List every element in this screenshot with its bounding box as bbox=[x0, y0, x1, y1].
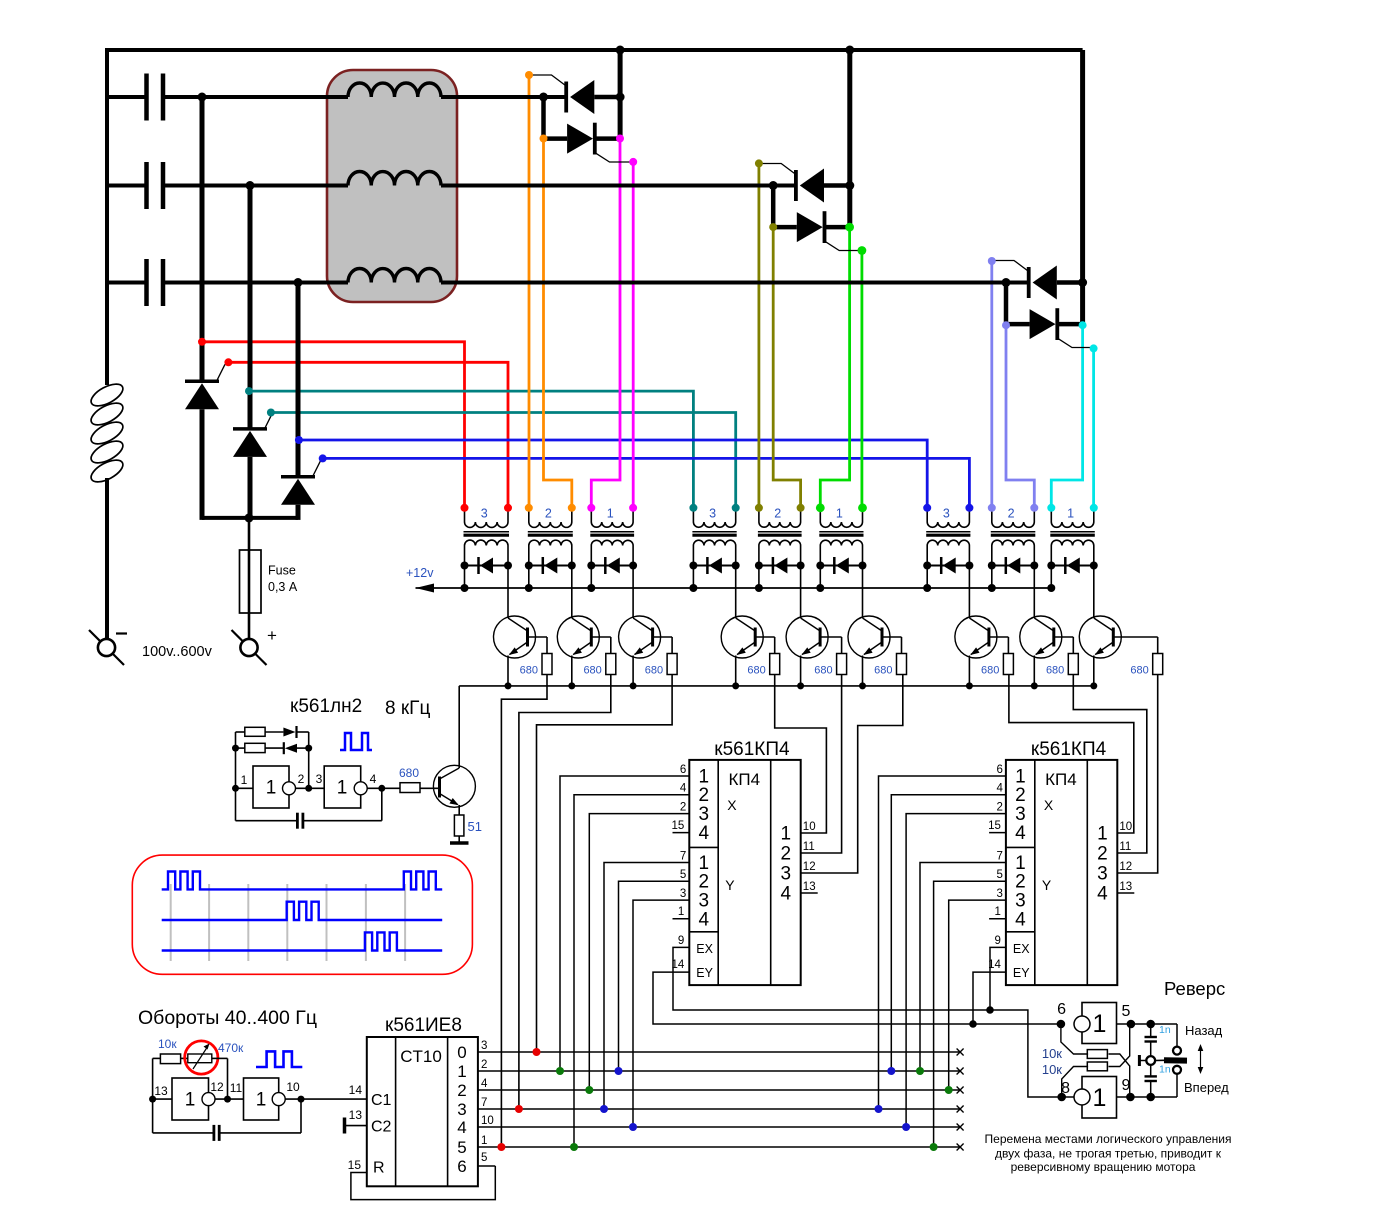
node magenta gate dots bbox=[616, 135, 624, 143]
terminator X out2 bbox=[957, 1087, 964, 1094]
wire red gate 2 from thyristor VS1 to T1 bbox=[228, 362, 508, 508]
svg-text:2: 2 bbox=[699, 785, 710, 806]
svg-text:двух фаза, не трогая третью, п: двух фаза, не трогая третью, приводит к bbox=[995, 1147, 1222, 1161]
svg-text:1: 1 bbox=[241, 773, 248, 787]
svg-text:3: 3 bbox=[1015, 804, 1026, 825]
node DD1.5 input bbox=[1057, 1020, 1066, 1029]
wire DD2 pin 5 input from counter bbox=[619, 881, 690, 1071]
wire DD1.1 to DD1.2 bbox=[296, 787, 325, 789]
transistor Q9 bbox=[1093, 566, 1095, 619]
phase line C bbox=[298, 281, 348, 285]
DD2 pin 15 stub bbox=[673, 832, 690, 834]
node DD1 junction bbox=[305, 785, 312, 792]
wire T4 secondary to +12v rail bbox=[692, 566, 694, 589]
wire DD2 pin 2 input from counter bbox=[589, 814, 689, 1090]
wire DD3 pin 2 input from counter bbox=[906, 814, 1006, 1127]
pulse transformer T7 bbox=[926, 508, 928, 522]
svg-text:3: 3 bbox=[316, 772, 323, 786]
wire Q7 base to DD3 pin10 bbox=[1009, 675, 1134, 834]
svg-text:1: 1 bbox=[781, 824, 792, 845]
resistor R1 680 base bbox=[528, 636, 548, 638]
motor winding phase B bbox=[348, 172, 441, 186]
svg-text:7: 7 bbox=[680, 851, 686, 863]
node counter tap at 618.5 bbox=[615, 1067, 623, 1075]
svg-text:11: 11 bbox=[230, 1081, 243, 1095]
svg-text:13: 13 bbox=[154, 1084, 168, 1098]
svg-text:2: 2 bbox=[298, 772, 305, 786]
wire blue gate 2 from thyristor VS3 to T7 bbox=[323, 458, 970, 507]
wire counter out3 row pin 7 bbox=[478, 1108, 960, 1110]
transistor Q2 bbox=[571, 566, 573, 619]
node counter tap at 933.6 bbox=[930, 1143, 938, 1151]
DD2 pin 13 stub bbox=[801, 892, 818, 894]
wire green gate from VS7 to T6 bbox=[861, 251, 864, 508]
node counter tap at 920 bbox=[916, 1067, 924, 1075]
svg-text:12: 12 bbox=[803, 861, 816, 873]
svg-text:EX: EX bbox=[1013, 942, 1030, 956]
svg-text:+12v: +12v bbox=[406, 566, 434, 580]
svg-text:1: 1 bbox=[836, 507, 843, 521]
transistor Q5 bbox=[800, 566, 802, 619]
wire T2 secondary to +12v rail bbox=[528, 566, 530, 589]
wire DD3 pin 6 input from counter bbox=[879, 776, 1006, 1109]
thyristor VS1 rectifier phase A bbox=[200, 97, 205, 354]
node Q4 emitter bbox=[732, 682, 739, 689]
svg-text:6: 6 bbox=[996, 764, 1002, 776]
multiplexer DD2 body bbox=[689, 760, 800, 985]
icon square wave 8kHz bbox=[340, 733, 372, 750]
wire violet cathode from VS8 to T8 bbox=[1006, 325, 1034, 508]
node Q2 emitter bbox=[568, 682, 575, 689]
svg-text:15: 15 bbox=[348, 1158, 362, 1172]
wire DD1.3 input bbox=[153, 1098, 172, 1100]
wire DD1.5 input to R16 bbox=[1061, 1024, 1088, 1054]
diode VD7 across T7 secondary bbox=[927, 565, 969, 567]
svg-text:51: 51 bbox=[468, 819, 482, 834]
wire olive cathode from VS6 to T5 bbox=[773, 227, 800, 508]
wire Q10 collector to emitter bus bbox=[458, 686, 460, 768]
node Q1 emitter bbox=[505, 682, 512, 689]
waveform diagram box bbox=[132, 855, 472, 974]
node counter tap at 589.3 bbox=[585, 1086, 593, 1094]
svg-text:2: 2 bbox=[1097, 844, 1108, 865]
svg-text:100v..600v: 100v..600v bbox=[142, 644, 213, 660]
svg-text:4: 4 bbox=[370, 772, 377, 786]
node Q3 emitter bbox=[630, 682, 637, 689]
svg-text:C2: C2 bbox=[371, 1119, 392, 1136]
pulse transformer T4 bbox=[692, 508, 694, 522]
node violet gate dots bbox=[988, 257, 996, 265]
svg-text:3: 3 bbox=[481, 507, 488, 521]
svg-text:Y: Y bbox=[725, 877, 735, 893]
node Q6 emitter bbox=[859, 682, 866, 689]
resistor R13 51 bbox=[458, 805, 460, 815]
svg-text:3: 3 bbox=[457, 1100, 466, 1119]
svg-text:6: 6 bbox=[457, 1157, 466, 1176]
svg-text:Y: Y bbox=[1042, 877, 1052, 893]
motor winding phase A bbox=[348, 83, 441, 97]
resistor R8 680 base bbox=[1054, 636, 1074, 638]
svg-text:2: 2 bbox=[1015, 872, 1026, 893]
node olive gate dots bbox=[755, 159, 763, 167]
svg-text:2: 2 bbox=[1015, 785, 1026, 806]
svg-text:680: 680 bbox=[583, 665, 601, 677]
svg-text:Назад: Назад bbox=[1185, 1023, 1223, 1038]
svg-text:2: 2 bbox=[481, 1059, 487, 1071]
svg-text:3: 3 bbox=[680, 888, 686, 900]
wire orange gate from VS4 to T2 bbox=[528, 75, 531, 508]
thyristor VS9 lower bbox=[1004, 283, 1009, 325]
wire cyan cathode from VS9 to T9 bbox=[1051, 325, 1082, 508]
svg-text:470к: 470к bbox=[218, 1041, 244, 1055]
terminator X out1 bbox=[957, 1068, 964, 1075]
svg-text:5: 5 bbox=[1122, 1003, 1131, 1020]
motor winding phase C bbox=[348, 269, 441, 283]
transistor Q7 bbox=[968, 566, 970, 619]
svg-text:8 кГц: 8 кГц bbox=[385, 698, 430, 719]
motor M1 stator block bbox=[327, 70, 457, 302]
wire DD3 pin 5 input from counter bbox=[934, 881, 1006, 1147]
pulse transformer T9 bbox=[1050, 508, 1052, 522]
svg-text:1: 1 bbox=[994, 906, 1000, 918]
svg-text:1: 1 bbox=[457, 1062, 466, 1081]
multiplexer DD3 body bbox=[1006, 760, 1117, 985]
svg-text:10: 10 bbox=[803, 821, 816, 833]
pulse transformer T8 bbox=[991, 508, 993, 522]
node DD1.6 input bbox=[1057, 1093, 1066, 1102]
svg-text:4: 4 bbox=[481, 1078, 488, 1090]
svg-text:3: 3 bbox=[781, 864, 792, 885]
wire counter out4 row pin 10 bbox=[478, 1126, 960, 1128]
wire DD2 pin 6 input from counter bbox=[560, 776, 689, 1071]
svg-text:2: 2 bbox=[781, 844, 792, 865]
svg-text:CT10: CT10 bbox=[400, 1047, 442, 1066]
node VS6 anode bus bbox=[847, 50, 852, 227]
DD3 pin 1 stub bbox=[989, 918, 1006, 920]
svg-text:3: 3 bbox=[943, 507, 950, 521]
svg-text:10: 10 bbox=[286, 1080, 300, 1094]
capacitor C12 1n bbox=[1150, 1024, 1152, 1037]
resistor R6 680 base bbox=[882, 636, 902, 638]
terminator X out4 bbox=[957, 1124, 964, 1131]
wire magenta gate from VS5 to T3 bbox=[632, 162, 635, 508]
wire R17 to DD1.5 output cross bbox=[1109, 1024, 1130, 1067]
svg-text:680: 680 bbox=[981, 665, 999, 677]
node EY DD3 join bbox=[969, 1020, 977, 1028]
switch SA1 contact fwd bbox=[1173, 1066, 1181, 1074]
counter C2 stub bbox=[345, 1125, 367, 1127]
node Q7 emitter bbox=[966, 682, 973, 689]
resistor R9 680 base bbox=[1113, 636, 1157, 638]
svg-text:7: 7 bbox=[996, 851, 1002, 863]
capacitor C3 bbox=[107, 281, 147, 285]
node counter tap out5 red bbox=[497, 1143, 505, 1151]
terminator X out3 bbox=[957, 1106, 964, 1113]
inverter DD1.4 bbox=[244, 1078, 279, 1120]
node rectifier output bbox=[245, 513, 254, 522]
wire teal gate 1 from thyristor VS2 to T4 bbox=[249, 391, 693, 508]
svg-text:14: 14 bbox=[349, 1083, 363, 1097]
waveform trace phase A bbox=[162, 872, 443, 890]
svg-text:13: 13 bbox=[349, 1108, 363, 1122]
node VS4 anode bus bbox=[618, 50, 623, 139]
DD2 pin 1 stub bbox=[673, 918, 690, 920]
svg-text:4: 4 bbox=[1015, 909, 1026, 930]
node orange gate dots bbox=[525, 71, 533, 79]
icon square wave 40-400Hz bbox=[256, 1051, 302, 1067]
node blue gate dots bbox=[295, 436, 303, 444]
node EX DD3 join bbox=[986, 1006, 994, 1014]
left DC bus bbox=[105, 48, 109, 385]
wire blue gate 1 from thyristor VS3 to T7 bbox=[299, 440, 927, 508]
svg-text:1: 1 bbox=[185, 1090, 196, 1111]
node red gate dots bbox=[198, 338, 206, 346]
svg-text:680: 680 bbox=[814, 665, 832, 677]
node counter tap out3 red bbox=[515, 1105, 523, 1113]
diode VD9 across T9 secondary bbox=[1051, 565, 1094, 567]
svg-text:0,3 А: 0,3 А bbox=[268, 580, 298, 594]
svg-text:к561лн2: к561лн2 bbox=[290, 696, 362, 717]
transistor Q8 bbox=[1033, 566, 1035, 619]
svg-text:14: 14 bbox=[988, 959, 1001, 971]
switch SA1 lever bbox=[1155, 1059, 1164, 1061]
thyristor VS5 lower bbox=[541, 97, 546, 139]
wire T7 secondary to +12v rail bbox=[926, 566, 928, 589]
node cyan gate dots bbox=[1079, 321, 1087, 329]
node counter tap at 560 bbox=[556, 1067, 564, 1075]
svg-text:12: 12 bbox=[1119, 861, 1132, 873]
diode VD2 across T2 secondary bbox=[529, 565, 572, 567]
wire olive gate from VS6 to T5 bbox=[758, 163, 761, 507]
svg-text:к561ИЕ8: к561ИЕ8 bbox=[385, 1015, 462, 1036]
inverter DD1.1 bbox=[253, 766, 289, 808]
node counter tap at 633 bbox=[629, 1123, 637, 1131]
svg-text:10к: 10к bbox=[1042, 1046, 1062, 1061]
svg-text:680: 680 bbox=[1130, 665, 1148, 677]
wire T9 secondary to +12v rail bbox=[1050, 566, 1052, 589]
ground bbox=[458, 836, 460, 843]
svg-text:4: 4 bbox=[457, 1118, 466, 1137]
wire cyan gate from VS9 to T9 bbox=[1092, 348, 1095, 507]
pulse transformer T1 bbox=[464, 508, 466, 522]
svg-text:3: 3 bbox=[699, 804, 710, 825]
svg-text:11: 11 bbox=[803, 841, 815, 853]
waveform grid lines bbox=[170, 884, 172, 961]
feedback branch resistor R12 bbox=[236, 747, 245, 749]
pulse transformer T6 bbox=[819, 508, 821, 522]
wire T8 secondary to +12v rail bbox=[991, 566, 993, 589]
svg-text:X: X bbox=[1044, 797, 1054, 813]
svg-text:15: 15 bbox=[988, 820, 1001, 832]
svg-text:Fuse: Fuse bbox=[268, 564, 296, 578]
wire feedback left bbox=[235, 732, 237, 821]
node counter tap at 948.7 bbox=[945, 1086, 953, 1094]
wire DD1.5 output bbox=[1117, 1023, 1178, 1025]
wire DD2 pin 3 input from counter bbox=[633, 900, 689, 1127]
waveform trace phase C bbox=[162, 932, 443, 950]
terminal minus bbox=[89, 630, 124, 665]
wire DD2 pin 7 input from counter bbox=[604, 863, 689, 1110]
svg-text:5: 5 bbox=[680, 869, 686, 881]
svg-text:1: 1 bbox=[1097, 824, 1108, 845]
wire counter out5 row pin 1 bbox=[478, 1146, 960, 1148]
wire T3 secondary to +12v rail bbox=[590, 566, 592, 589]
svg-text:1: 1 bbox=[266, 778, 277, 799]
svg-text:3: 3 bbox=[481, 1040, 487, 1052]
rectifier cathode bus bbox=[202, 516, 298, 520]
svg-text:6: 6 bbox=[1057, 1001, 1066, 1018]
svg-text:4: 4 bbox=[781, 884, 792, 905]
diode VD1 across T1 secondary bbox=[465, 565, 509, 567]
svg-text:к561КП4: к561КП4 bbox=[714, 739, 790, 760]
terminator X out5 bbox=[957, 1144, 964, 1151]
transistor Q6 bbox=[862, 566, 864, 619]
wire red gate 1 from thyristor VS1 to T1 bbox=[202, 342, 465, 508]
svg-text:1n: 1n bbox=[1159, 1024, 1171, 1036]
terminator X out0 bbox=[957, 1049, 964, 1056]
wire Q8 base to DD3 pin11 bbox=[1073, 675, 1147, 854]
thyristor VS3 rectifier phase C bbox=[296, 283, 301, 477]
diode VD5 across T5 secondary bbox=[759, 565, 801, 567]
node phase A cap junction bbox=[198, 93, 207, 102]
node Q9 emitter bbox=[1090, 682, 1097, 689]
diode VD4 across T4 secondary bbox=[693, 565, 735, 567]
wire counter out2 row pin 4 bbox=[478, 1089, 960, 1091]
svg-text:2: 2 bbox=[545, 507, 552, 521]
svg-text:R: R bbox=[373, 1160, 385, 1177]
transistor Q4 bbox=[735, 566, 737, 619]
diode VD8 across T8 secondary bbox=[992, 565, 1035, 567]
wire Q6 base to DD2 pin12 bbox=[801, 675, 903, 874]
svg-text:X: X bbox=[727, 797, 737, 813]
wire DD1.4 output to counter C1 bbox=[285, 1098, 367, 1100]
resistor R5 680 base bbox=[820, 636, 842, 638]
svg-text:2: 2 bbox=[1008, 507, 1015, 521]
wire Q3 base to counter out0 bbox=[537, 675, 673, 1053]
node green gate dots bbox=[845, 223, 854, 232]
wire DD1.6 input to R17 bbox=[1062, 1067, 1088, 1098]
node VS8 anode bus bbox=[1080, 50, 1085, 324]
wire Q1 base to counter out5 bbox=[501, 675, 547, 1148]
DD3 pin 15 stub bbox=[989, 832, 1006, 834]
svg-text:7: 7 bbox=[481, 1097, 487, 1109]
resistor R2 680 base bbox=[591, 636, 611, 638]
node counter tap at 604 bbox=[600, 1105, 608, 1113]
transistor Q1 bbox=[507, 566, 509, 619]
pulse transformer T5 bbox=[758, 508, 760, 522]
svg-text:2: 2 bbox=[996, 802, 1002, 814]
svg-text:1: 1 bbox=[607, 507, 614, 521]
emitter common bus bbox=[459, 685, 1094, 687]
counter DD4 к561ИЕ8 body bbox=[367, 1037, 478, 1186]
svg-text:0: 0 bbox=[457, 1043, 466, 1062]
inverter DD1.5 bbox=[1082, 1003, 1117, 1044]
node phase C cap junction bbox=[294, 278, 303, 287]
svg-text:2: 2 bbox=[680, 802, 686, 814]
switch SA1 contact back bbox=[1173, 1047, 1181, 1055]
wire DD1.6 output bbox=[1117, 1096, 1178, 1098]
resistor R7 680 base bbox=[989, 636, 1009, 638]
wire Q5 base to DD2 pin11 bbox=[801, 675, 842, 854]
feedback branch resistor R11 bbox=[236, 731, 245, 733]
wire Q2 base to counter out3 bbox=[519, 675, 611, 1110]
svg-text:1n: 1n bbox=[1159, 1064, 1171, 1076]
thyristor VS2 rectifier phase B bbox=[248, 186, 253, 429]
transistor Q10 8kHz chopper bbox=[433, 765, 475, 807]
svg-text:10: 10 bbox=[1119, 821, 1132, 833]
svg-text:к561КП4: к561КП4 bbox=[1031, 739, 1107, 760]
wire DD1.3 to DD1.4 bbox=[215, 1098, 244, 1100]
svg-text:1: 1 bbox=[337, 778, 348, 799]
svg-text:10к: 10к bbox=[158, 1037, 177, 1051]
svg-text:10к: 10к bbox=[1042, 1062, 1062, 1077]
svg-text:Обороты 40..400 Гц: Обороты 40..400 Гц bbox=[138, 1007, 317, 1029]
svg-text:КП4: КП4 bbox=[729, 770, 761, 789]
svg-text:4: 4 bbox=[699, 823, 710, 844]
svg-text:4: 4 bbox=[1097, 884, 1108, 905]
diode VD3 across T3 secondary bbox=[591, 565, 633, 567]
svg-text:12: 12 bbox=[210, 1080, 224, 1094]
svg-text:13: 13 bbox=[1119, 881, 1132, 893]
thyristor VS6 upper bbox=[794, 170, 798, 201]
svg-text:4: 4 bbox=[699, 909, 710, 930]
svg-text:14: 14 bbox=[672, 959, 685, 971]
svg-text:4: 4 bbox=[1015, 823, 1026, 844]
svg-text:EX: EX bbox=[696, 942, 713, 956]
terminal plus bbox=[232, 630, 267, 665]
wire rheostat to junction bbox=[212, 1057, 228, 1059]
svg-text:680: 680 bbox=[399, 766, 419, 780]
thyristor VS7 lower bbox=[771, 186, 776, 228]
node VS4 cathode bbox=[539, 93, 548, 102]
svg-text:9: 9 bbox=[678, 935, 684, 947]
capacitor C11 feedback bbox=[300, 1099, 302, 1133]
waveform trace phase B bbox=[162, 902, 443, 920]
fuse FU1 0.3A bbox=[240, 550, 262, 613]
svg-text:4: 4 bbox=[680, 783, 687, 795]
wire T5 secondary to +12v rail bbox=[758, 566, 760, 589]
svg-text:680: 680 bbox=[874, 665, 892, 677]
node counter tap at 891.3 bbox=[887, 1067, 895, 1075]
wire Q4 base to DD2 pin10 bbox=[775, 675, 827, 834]
phase line B bbox=[250, 184, 348, 188]
svg-text:2: 2 bbox=[457, 1081, 466, 1100]
switch SA1 common bbox=[1146, 1056, 1155, 1065]
inductor L1 smoothing choke bbox=[88, 380, 126, 411]
wire orange cathode from VS4 to T2 bbox=[544, 139, 572, 508]
svg-text:4: 4 bbox=[996, 783, 1003, 795]
svg-text:3: 3 bbox=[709, 507, 716, 521]
resistor R4 680 base bbox=[755, 636, 775, 638]
wire DD1 input bbox=[236, 787, 254, 789]
svg-text:Перемена местами логического у: Перемена местами логического управления bbox=[985, 1132, 1232, 1146]
svg-text:реверсивному вращению мотора: реверсивному вращению мотора bbox=[1011, 1160, 1196, 1174]
node counter tap at 906.1 bbox=[902, 1123, 910, 1131]
svg-text:EY: EY bbox=[696, 966, 713, 980]
svg-text:1: 1 bbox=[256, 1090, 267, 1111]
+12v supply rail bbox=[416, 587, 1052, 589]
svg-text:Реверс: Реверс bbox=[1164, 978, 1225, 999]
node teal gate dots bbox=[245, 387, 253, 395]
phase line A bbox=[202, 95, 348, 99]
svg-text:6: 6 bbox=[680, 764, 686, 776]
inverter DD1.6 bbox=[1082, 1077, 1117, 1119]
svg-text:680: 680 bbox=[747, 665, 765, 677]
wire counter out1 row pin 2 bbox=[478, 1070, 960, 1072]
svg-text:3: 3 bbox=[1097, 864, 1108, 885]
inverter DD1.3 bbox=[172, 1078, 209, 1120]
inverter DD1.2 bbox=[324, 766, 361, 808]
